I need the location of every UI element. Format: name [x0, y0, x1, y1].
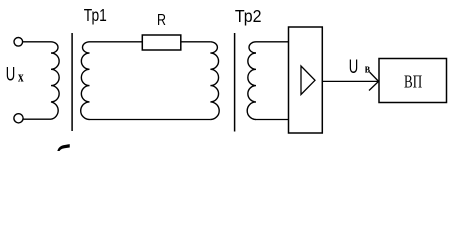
svg-text:R: R: [157, 12, 166, 29]
wire Tr2 secondary bottom to amplifier: [256, 119, 289, 121]
arrowhead at VP input: [369, 72, 379, 91]
winding primary of Tr2 (bulge right): [210, 42, 219, 120]
wire resistor R to Tr2 primary: [181, 41, 211, 43]
wire amplifier output: [322, 80, 378, 82]
wire Tr2 secondary top to amplifier: [256, 41, 289, 43]
svg-text:U: U: [349, 57, 359, 78]
winding secondary of Tr2 (bulge left): [247, 42, 256, 120]
svg-text:U: U: [6, 64, 16, 86]
svg-text:в: в: [365, 61, 370, 76]
winding L1 primary of Tr1 (bulge right): [51, 42, 59, 119]
amplifier U1 box: [289, 27, 323, 133]
wire Tr1 secondary to resistor R: [90, 41, 143, 43]
Tr2 core line: [234, 33, 236, 132]
amplifier triangle: [301, 66, 315, 95]
terminal circle top: [14, 38, 23, 47]
svg-text:ВП: ВП: [404, 72, 422, 92]
Tr1 core line: [71, 33, 73, 131]
resistor R body: [142, 35, 181, 50]
winding secondary of Tr1 (bulge left): [81, 42, 90, 120]
wire bottom terminal to primary winding: [23, 118, 51, 120]
svg-text:Тр2: Тр2: [235, 6, 262, 26]
svg-text:х: х: [18, 70, 24, 86]
bottom wire of loop: [90, 119, 211, 121]
svg-text:Тр1: Тр1: [84, 5, 107, 25]
VP box (secondary device): [379, 59, 447, 103]
wire top terminal to primary winding: [23, 41, 51, 43]
svg-text:б: б: [56, 140, 72, 151]
terminal circle bottom: [14, 114, 23, 123]
